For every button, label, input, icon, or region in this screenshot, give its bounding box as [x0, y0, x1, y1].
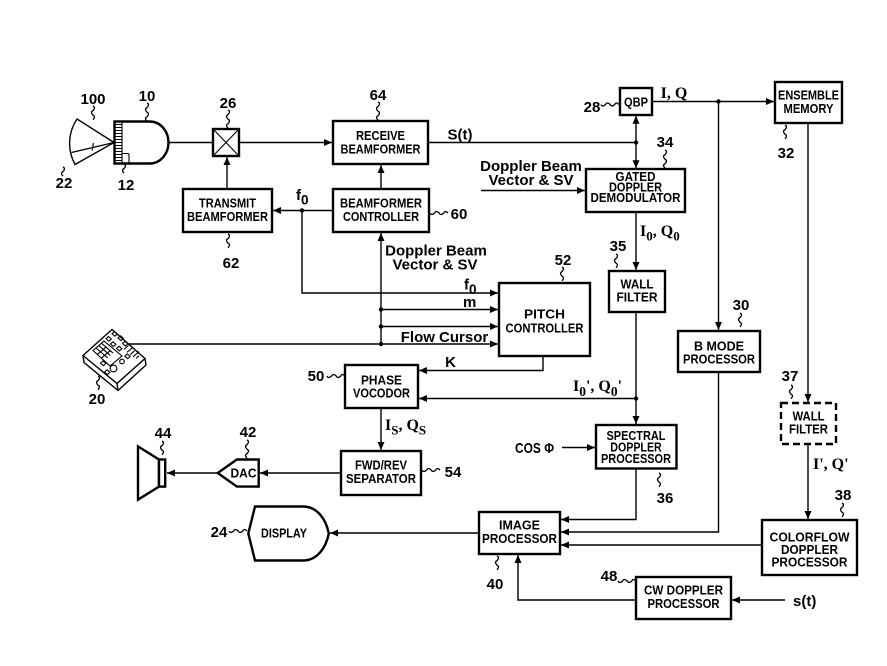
transducer array 12: [115, 122, 130, 164]
svg-text:Vector & SV: Vector & SV: [392, 257, 477, 274]
squiggle 40: [496, 556, 499, 570]
svg-text:PROCESSOR: PROCESSOR: [601, 452, 671, 466]
squiggle 64: [377, 102, 380, 120]
label doppler beam vector & SV 1: [480, 158, 582, 189]
svg-text:52: 52: [555, 252, 572, 269]
beamformer controller U60: [333, 189, 429, 232]
S(t) wire receive beamformer to node: [428, 142, 636, 144]
transducer probe 10: [115, 122, 169, 164]
squiggle 50: [327, 375, 345, 378]
label doppler beam vector & SV 2: [385, 243, 487, 274]
wire QBP gated doppler bidirectional: [635, 116, 637, 168]
svg-text:PROCESSOR: PROCESSOR: [772, 556, 848, 570]
display 24: [248, 507, 328, 561]
phase vocodor U50: [345, 365, 418, 408]
squiggle 42: [246, 440, 249, 458]
svg-text:BEAMFORMER: BEAMFORMER: [187, 209, 269, 224]
wire wall filter to spectral doppler: [635, 312, 637, 424]
svg-text:m: m: [463, 294, 476, 311]
squiggle 62: [227, 234, 230, 248]
node I,Q: [716, 99, 720, 103]
receive beamformer U64: [333, 121, 428, 164]
wire wall filter 37 to colorflow: [807, 444, 809, 519]
squiggle 30: [739, 313, 742, 327]
svg-text:BEAMFORMER: BEAMFORMER: [341, 142, 422, 157]
wire transmit beamformer to mixer: [226, 157, 228, 189]
svg-text:MEMORY: MEMORY: [784, 101, 834, 116]
svg-text:CONTROLLER: CONTROLLER: [343, 209, 420, 224]
node I0' Q0': [634, 396, 638, 400]
colorflow to image processor: [561, 544, 762, 546]
svg-text:100: 100: [80, 91, 105, 108]
transmit beamformer U62: [183, 189, 272, 232]
wire CW doppler to image processor: [518, 555, 636, 600]
mixer 26: [213, 129, 239, 156]
svg-text:K: K: [445, 354, 456, 371]
squiggle 36: [658, 473, 661, 487]
keyboard 20: [83, 330, 146, 391]
wire m to pitch controller: [381, 309, 498, 311]
svg-text:PROCESSOR: PROCESSOR: [482, 531, 558, 546]
svg-text:36: 36: [657, 490, 674, 507]
wire third to pitch controller: [381, 326, 498, 328]
B mode processor U30: [678, 331, 760, 372]
wire phase vocodor to fwd/rev separator: [380, 408, 382, 450]
image processor to display: [330, 532, 479, 534]
squiggle 48: [618, 580, 636, 583]
node third: [379, 324, 383, 328]
svg-text:50: 50: [308, 368, 325, 385]
squiggle 54: [422, 469, 440, 472]
svg-text:s(t): s(t): [793, 593, 816, 610]
wire mixer to receive beamformer: [239, 142, 332, 144]
svg-text:DAC: DAC: [231, 466, 258, 481]
B mode processor to image processor: [561, 372, 719, 532]
wire QBP to ensemble memory I,Q: [652, 101, 774, 103]
squiggle 26: [227, 110, 230, 128]
node S(t): [634, 140, 638, 144]
squiggle 35: [615, 254, 618, 268]
wire doppler beam vector to gated demodulator: [481, 190, 585, 192]
svg-text:26: 26: [220, 95, 237, 112]
node flow cursor: [379, 342, 383, 346]
svg-text:FILTER: FILTER: [617, 290, 659, 305]
squiggle 100: [92, 106, 95, 120]
wire s(t) to CW doppler: [732, 599, 785, 601]
squiggle 60: [430, 212, 448, 215]
squiggle 10: [146, 103, 149, 121]
svg-text:37: 37: [782, 368, 799, 385]
svg-text:60: 60: [451, 206, 468, 223]
spectral doppler processor U36: [596, 425, 677, 469]
wire node to phase vocodor: [419, 398, 636, 400]
svg-text:I', Q': I', Q': [813, 456, 849, 473]
svg-text:20: 20: [89, 391, 106, 408]
wire gated demodulator to wall filter: [635, 212, 637, 270]
svg-text:48: 48: [601, 568, 618, 585]
wire fwd/rev separator to DAC: [260, 472, 341, 474]
wire ensemble memory to wall filter 37: [807, 123, 809, 402]
squiggle 44: [161, 441, 164, 455]
wire controller to receive beamformer: [380, 165, 382, 189]
svg-text:10: 10: [139, 88, 156, 105]
wall filter U37 dashed: [781, 403, 836, 444]
CW doppler processor U48: [636, 577, 731, 619]
svg-text:32: 32: [778, 145, 795, 162]
squiggle 34: [664, 150, 667, 168]
svg-text:VOCODOR: VOCODOR: [353, 386, 411, 401]
wire cos phi to spectral doppler: [562, 447, 595, 449]
svg-text:12: 12: [118, 177, 135, 194]
squiggle 28: [601, 103, 619, 106]
svg-text:PITCH: PITCH: [524, 307, 565, 322]
svg-text:54: 54: [445, 464, 462, 481]
wall filter U35: [609, 271, 665, 312]
svg-text:DEMODULATOR: DEMODULATOR: [591, 191, 681, 205]
svg-text:34: 34: [657, 134, 674, 151]
svg-text:44: 44: [155, 425, 172, 442]
svg-text:38: 38: [835, 487, 852, 504]
wire probe to mixer: [169, 142, 213, 144]
svg-text:DISPLAY: DISPLAY: [261, 526, 307, 541]
wire I,Q node to B mode processor: [718, 102, 720, 331]
node f0: [300, 208, 304, 212]
svg-text:35: 35: [610, 238, 627, 255]
squiggle 12: [123, 164, 126, 173]
svg-text:Vector & SV: Vector & SV: [488, 172, 573, 189]
QBP U28: [620, 88, 652, 115]
DAC U42: [218, 460, 259, 487]
svg-text:S(t): S(t): [448, 127, 473, 144]
squiggle 52: [561, 267, 564, 281]
svg-text:42: 42: [240, 424, 257, 441]
image processor U40: [479, 512, 560, 554]
svg-text:62: 62: [223, 255, 240, 272]
wire pitch controller K to phase vocodor: [419, 356, 543, 371]
svg-text:28: 28: [584, 99, 601, 116]
wire keyboard flow cursor to pitch controller: [128, 343, 498, 345]
svg-text:22: 22: [56, 175, 73, 192]
svg-text:CONTROLLER: CONTROLLER: [506, 321, 585, 336]
squiggle 37: [790, 385, 793, 399]
spectral doppler to image processor: [561, 469, 636, 520]
squiggle 38: [841, 503, 844, 517]
svg-text:SEPARATOR: SEPARATOR: [346, 471, 417, 486]
ensemble memory U32: [775, 82, 842, 123]
pitch controller U52: [499, 283, 590, 356]
svg-text:COS Φ: COS Φ: [515, 440, 554, 457]
svg-text:PROCESSOR: PROCESSOR: [683, 352, 756, 367]
speaker 44: [138, 446, 165, 499]
svg-text:40: 40: [487, 576, 504, 593]
svg-text:30: 30: [733, 297, 750, 314]
wire doppler beam vector to controller: [380, 233, 382, 344]
squiggle 20: [97, 376, 100, 390]
svg-text:I, Q: I, Q: [661, 85, 688, 102]
gated doppler demodulator U34: [586, 169, 685, 212]
colorflow doppler processor U38: [762, 520, 857, 575]
wire DAC to speaker: [167, 472, 218, 474]
wire f0 to pitch controller: [302, 211, 498, 294]
squiggle 24: [229, 530, 247, 533]
fwd/rev separator U54: [341, 451, 421, 495]
scan sector 100: [70, 119, 114, 165]
squiggle 32: [784, 125, 787, 139]
wire controller to transmit beamformer f0: [273, 210, 333, 212]
svg-text:FILTER: FILTER: [789, 422, 829, 437]
node m: [379, 307, 383, 311]
svg-text:24: 24: [211, 524, 228, 541]
squiggle 22: [62, 167, 65, 176]
svg-text:PROCESSOR: PROCESSOR: [648, 596, 721, 611]
svg-text:QBP: QBP: [624, 95, 648, 110]
